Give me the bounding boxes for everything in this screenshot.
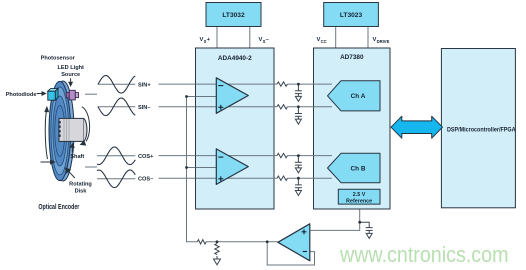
svg-text:Shaft: Shaft [70,154,84,160]
svg-text:Ch B: Ch B [351,165,366,172]
svg-text:LED Light: LED Light [57,65,84,71]
svg-text:DRIVE: DRIVE [377,39,390,44]
svg-text:Source: Source [61,72,80,78]
svg-text:DSP/Microcontroller/FPGA: DSP/Microcontroller/FPGA [447,126,516,133]
svg-text:LT3032: LT3032 [222,12,245,19]
svg-text:Disk: Disk [75,188,88,194]
svg-text:SIN+: SIN+ [138,82,151,88]
svg-text:Reference: Reference [346,198,372,204]
svg-text:LT3023: LT3023 [340,12,363,19]
svg-text:CC: CC [321,39,327,44]
svg-text:Photodiode: Photodiode [6,92,37,98]
svg-text:AD7380: AD7380 [340,54,364,61]
svg-text:SIN–: SIN– [138,105,150,111]
svg-text:Optical Encoder: Optical Encoder [38,204,79,211]
svg-text:www.cntronics.com: www.cntronics.com [339,242,508,267]
svg-text:2.5 V: 2.5 V [353,192,366,198]
svg-text:Rotating: Rotating [69,181,92,187]
svg-text:Ch A: Ch A [351,93,366,100]
svg-text:COS–: COS– [138,177,153,183]
svg-text:ADA4940-2: ADA4940-2 [218,55,252,62]
svg-text:Photosensor: Photosensor [41,56,76,62]
svg-text:COS+: COS+ [138,154,154,160]
